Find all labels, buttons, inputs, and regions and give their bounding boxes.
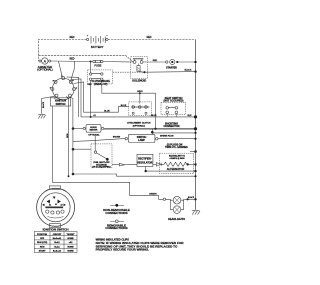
- svg-text:4 AMPS @ 3600: 4 AMPS @ 3600: [170, 157, 186, 160]
- wire battery positive to right bus: [108, 39, 196, 41]
- wire battery cable to solenoid: [39, 55, 134, 61]
- svg-text:(IF SO EQUIPPED): (IF SO EQUIPPED): [92, 167, 110, 169]
- ground (left): [38, 114, 45, 118]
- svg-text:B+A1: B+A1: [54, 245, 60, 248]
- node bus engine: [194, 150, 197, 153]
- ignition switch (schematic): [50, 75, 77, 99]
- svg-text:SPARK PLUG: SPARK PLUG: [160, 135, 174, 138]
- svg-text:NONE: NONE: [67, 238, 74, 240]
- svg-text:A2: A2: [60, 204, 62, 207]
- svg-text:CONNECTIONS: CONNECTIONS: [105, 211, 127, 215]
- wire stub dot to bus: [152, 132, 195, 134]
- attachment clutch switch (optional): [127, 102, 151, 127]
- svg-text:BLUE: BLUE: [151, 115, 157, 117]
- svg-text:BLK: BLK: [188, 115, 193, 117]
- svg-text:METER: METER: [90, 130, 98, 132]
- svg-text:SWITCH: SWITCH: [56, 103, 66, 106]
- wire hour meter feed: [73, 128, 83, 130]
- wire to ignition switch terminal (right diagonal): [71, 61, 75, 80]
- node gray-vertical: [154, 128, 156, 130]
- wire interlock run to bus: [81, 116, 196, 118]
- svg-text:TWIN CYL. ENGINES: TWIN CYL. ENGINES: [165, 147, 188, 149]
- wire switch to left ground: [42, 96, 56, 114]
- wire brown to lamp box: [73, 139, 125, 142]
- wire starter to bus: [177, 61, 195, 63]
- node headlight right: [187, 198, 189, 200]
- svg-text:RED: RED: [147, 37, 152, 39]
- wire pedal switch down left: [90, 80, 92, 117]
- svg-text:POSITION: POSITION: [37, 234, 47, 236]
- svg-text:PROPERLY SECURE YOUR WIRING.: PROPERLY SECURE YOUR WIRING.: [96, 248, 150, 252]
- node bus starter: [194, 61, 196, 63]
- wire switch vertical A: [66, 96, 68, 176]
- wire stub fuel box: [94, 136, 96, 151]
- regulator box: [137, 154, 153, 166]
- svg-text:BLACK: BLACK: [42, 101, 45, 108]
- wire bundle right of switch: [67, 77, 79, 117]
- ammeter M1 (optional): [37, 58, 52, 72]
- wire stub to lamp box: [151, 129, 153, 135]
- svg-text:(OPTIONAL): (OPTIONAL): [37, 68, 52, 72]
- starter motor: [166, 59, 178, 69]
- wire fuse to pedal switch: [90, 62, 92, 73]
- node alternator out: [187, 163, 189, 165]
- svg-text:RED: RED: [70, 37, 75, 39]
- node hour meter junction: [72, 127, 75, 130]
- svg-text:HEADLIGHTS: HEADLIGHTS: [168, 217, 185, 221]
- svg-text:RUN: RUN: [40, 246, 45, 248]
- wire solenoid to starter: [143, 61, 166, 63]
- wire stub to attachment clutch: [139, 93, 141, 103]
- svg-text:BATTERY: BATTERY: [91, 45, 104, 49]
- svg-text:REGULATOR: REGULATOR: [137, 161, 152, 164]
- diode D1: [156, 163, 161, 166]
- headlights: [163, 196, 185, 221]
- node starter output: [176, 61, 178, 63]
- node bus seat: [194, 115, 197, 118]
- wire stepped ground: [73, 174, 196, 176]
- engine note text: [160, 135, 188, 149]
- wire switch green feed: [53, 106, 164, 199]
- svg-text:BLACK: BLACK: [188, 196, 195, 199]
- alternator winding: [161, 162, 188, 171]
- seat switch (not occupied): [161, 96, 186, 117]
- solenoid K1: [131, 57, 148, 83]
- svg-text:CLUTCH/BRAKE: CLUTCH/BRAKE: [92, 80, 111, 83]
- wire headlights to bus: [184, 198, 196, 200]
- wire fuel to regulator with connector arrow: [112, 164, 119, 166]
- svg-text:START: START: [39, 250, 47, 253]
- clutch/brake switch (pedal up): [88, 70, 113, 86]
- svg-text:FUSE: FUSE: [94, 64, 101, 68]
- node bus 176: [194, 175, 196, 177]
- svg-text:CONNECTOR: CONNECTOR: [163, 125, 179, 128]
- svg-text:CONNECTIONS: CONNECTIONS: [105, 226, 127, 230]
- legend non-removable: [103, 204, 130, 215]
- node bus 133: [194, 132, 196, 134]
- connector arrow: [119, 163, 125, 166]
- node bus gray: [194, 127, 197, 130]
- hour meter (optional): [83, 124, 104, 136]
- svg-text:GREEN: GREEN: [149, 194, 157, 196]
- wire connector to regulator: [125, 163, 137, 165]
- svg-text:ATTACHMENT CLUTCH: ATTACHMENT CLUTCH: [127, 122, 151, 125]
- svg-text:RED: RED: [70, 59, 75, 61]
- wire alternator to bus: [188, 163, 196, 165]
- svg-text:OFF: OFF: [40, 238, 45, 240]
- wire fuel box feed: [73, 148, 91, 150]
- fuel shut-off solenoid box: [91, 144, 112, 169]
- wire gray harness to bus: [104, 128, 196, 130]
- node lamp stub: [151, 131, 154, 134]
- wire bundle 2: [71, 79, 82, 117]
- svg-text:STARTER: STARTER: [166, 67, 177, 70]
- node bus alternator: [194, 163, 196, 165]
- node bus lamp: [194, 138, 196, 140]
- svg-text:RUN (LTS): RUN (LTS): [37, 242, 48, 244]
- svg-text:RED: RED: [88, 84, 93, 86]
- svg-text:HOUR: HOUR: [90, 127, 97, 129]
- node regulator ground: [145, 170, 147, 172]
- ignition switch position table: [34, 232, 77, 253]
- wire regulator to diode: [153, 163, 156, 165]
- node fuse-pedal: [90, 61, 92, 63]
- svg-text:OPTIONAL: OPTIONAL: [88, 133, 100, 136]
- node stepped 2: [68, 175, 70, 177]
- svg-text:M+G+A1: M+G+A1: [53, 237, 62, 240]
- wire regulator ground: [146, 167, 196, 172]
- fuse F1: [93, 60, 103, 67]
- legend removable: [105, 220, 127, 230]
- svg-text:"MODE": "MODE": [66, 234, 74, 236]
- svg-text:(OPTIONAL): (OPTIONAL): [133, 124, 145, 127]
- node solenoid coil: [143, 71, 145, 73]
- svg-text:BLUE: BLUE: [104, 110, 110, 112]
- node bus black: [194, 70, 196, 72]
- wire ammeter to fuse: [51, 60, 93, 63]
- node bus 171: [194, 170, 196, 172]
- wire lamp box to bus: [158, 138, 196, 140]
- node pedal-seat junction: [90, 116, 92, 118]
- svg-text:RECTIFIER-: RECTIFIER-: [138, 157, 152, 160]
- node attachment stub: [139, 92, 141, 94]
- node fuel feed: [72, 148, 75, 151]
- svg-text:RED: RED: [153, 60, 158, 62]
- svg-text:CIRCUIT: CIRCUIT: [53, 234, 62, 236]
- node stepped: [72, 173, 75, 176]
- svg-text:BLACK: BLACK: [185, 69, 192, 72]
- wire battery negative to ammeter: [39, 40, 87, 61]
- ground (right bus bottom): [192, 210, 200, 214]
- wire pedal switch down right then right: [102, 80, 156, 128]
- svg-text:IGNITION SWITCH: IGNITION SWITCH: [43, 228, 69, 232]
- wire gray harness core: [104, 127, 196, 129]
- svg-text:LAMP: LAMP: [138, 139, 145, 142]
- svg-text:(PEDAL UP): (PEDAL UP): [94, 83, 107, 86]
- node bus headlight: [194, 198, 196, 200]
- wire switch vertical C: [70, 97, 73, 174]
- switch lamp box: [125, 134, 158, 142]
- wire fuse to solenoid: [103, 61, 133, 64]
- engine text: [169, 155, 185, 160]
- wire bundle 3: [74, 82, 84, 112]
- svg-text:NONE: NONE: [67, 251, 74, 253]
- svg-text:BROWN: BROWN: [113, 137, 121, 139]
- wire right bus: [195, 40, 197, 210]
- wire black ground return: [146, 71, 196, 74]
- svg-text:ALTERNATOR: ALTERNATOR: [167, 167, 185, 171]
- svg-text:SOLENOID: SOLENOID: [132, 79, 146, 83]
- wire to ignition switch terminal (left diagonal): [59, 61, 63, 77]
- svg-text:NONE: NONE: [67, 246, 74, 248]
- battery B1: [87, 35, 109, 49]
- wire solenoid activate (dashed): [113, 71, 144, 73]
- wire engine stub: [190, 151, 196, 153]
- ignition switch label box: [50, 98, 70, 106]
- wiring clips note: [96, 238, 185, 252]
- svg-text:A1: A1: [49, 204, 51, 207]
- svg-text:B+A1: B+A1: [54, 241, 60, 244]
- svg-text:GRN: GRN: [67, 133, 69, 138]
- ignition switch detail (key face): [37, 186, 75, 232]
- svg-text:B+S+A1: B+S+A1: [53, 250, 62, 253]
- wire blue to attachment clutch: [84, 107, 129, 113]
- svg-text:A1: A1: [93, 114, 95, 117]
- engine dashed box: [160, 153, 194, 174]
